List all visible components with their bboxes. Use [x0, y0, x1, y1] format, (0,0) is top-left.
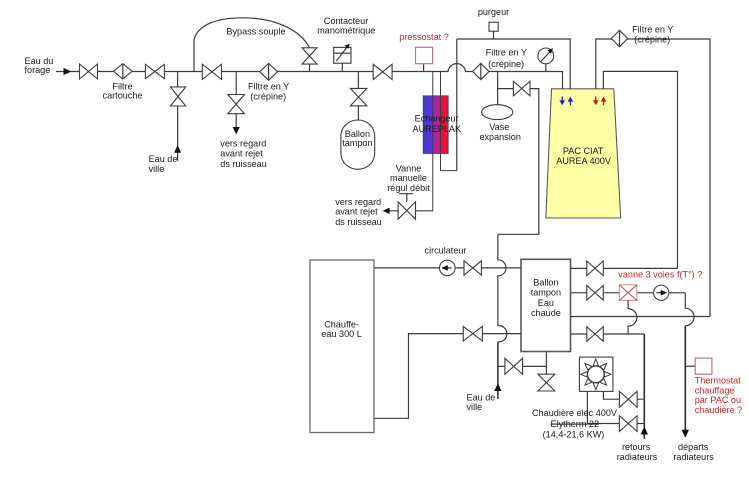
- svg-text:manométrique: manométrique: [317, 26, 375, 36]
- pressure switch Contacteur manometrique: [334, 44, 351, 64]
- svg-text:cartouche: cartouche: [103, 91, 143, 101]
- wire eau de ville branch to ballon drain: [498, 365, 547, 367]
- wire vase expansion drop: [497, 72, 499, 105]
- wire ballon EC drain drop: [545, 352, 547, 375]
- wire drain drop to regard (first): [235, 72, 237, 129]
- wire gauge stem: [545, 64, 547, 72]
- svg-text:Echangeur: Echangeur: [415, 114, 459, 124]
- svg-text:vers regard: vers regard: [220, 139, 266, 149]
- valve V3 on main line: [202, 64, 221, 79]
- svg-text:Chauffe-: Chauffe-: [324, 319, 359, 329]
- svg-text:expansion: expansion: [479, 132, 520, 142]
- wire bypass right drop below valve: [309, 64, 311, 71]
- arrow PAC blue up: [568, 97, 574, 106]
- valve V1 on main line: [80, 64, 98, 79]
- valve on eau de ville branch: [505, 358, 523, 374]
- valve on ballon line 4: [587, 327, 604, 342]
- wire ballon EC line 3 to filtre riser: [571, 316, 711, 318]
- svg-text:(crépine): (crépine): [488, 59, 524, 69]
- svg-text:Eau de: Eau de: [149, 154, 178, 164]
- svg-text:chaudière ?: chaudière ?: [695, 405, 743, 415]
- svg-text:AUREA 400V: AUREA 400V: [556, 156, 612, 166]
- wire bypass souple arc: [194, 18, 310, 48]
- wire chaudiere stem 1 and retour line: [587, 391, 644, 423]
- wire pressostat stem: [423, 64, 425, 72]
- svg-text:Vanne: Vanne: [396, 164, 422, 174]
- svg-text:Contacteur: Contacteur: [324, 16, 368, 26]
- valve on chauffe-eau top line: [464, 261, 481, 275]
- arrow eau de ville up (right): [494, 383, 501, 391]
- svg-text:Ballon: Ballon: [533, 278, 558, 288]
- svg-text:Filtre en Y: Filtre en Y: [632, 24, 673, 34]
- exchanger Echangeur AUREPLAK block: [423, 96, 448, 154]
- valve hourglass on eau-de-ville riser: [170, 87, 185, 106]
- boiler chaudiere elec sun box: [579, 357, 613, 391]
- wire ballon EC line 4 retours: [571, 333, 645, 335]
- svg-text:manuelle: manuelle: [390, 173, 427, 183]
- wire ballon tampon stem: [357, 72, 359, 121]
- svg-text:vers regard: vers regard: [335, 197, 381, 207]
- valve on ballon line 1: [587, 261, 604, 276]
- wire exchanger left pipe: [432, 72, 434, 212]
- valve on refill line y=88.6: [513, 81, 530, 96]
- svg-text:ville: ville: [149, 164, 165, 174]
- wire thermostat connector: [685, 365, 695, 367]
- wire PAC top right lines: [596, 39, 710, 317]
- svg-text:(crépine): (crépine): [634, 35, 670, 45]
- svg-text:ds ruisseau: ds ruisseau: [220, 159, 267, 169]
- svg-text:PAC CIAT: PAC CIAT: [563, 146, 604, 156]
- pump circulateur: [440, 260, 456, 276]
- wire bypass left riser: [193, 40, 195, 72]
- valve bypass hourglass: [302, 48, 317, 64]
- svg-text:par PAC ou: par PAC ou: [695, 395, 741, 405]
- svg-text:purgeur: purgeur: [478, 7, 509, 17]
- wire retours riser: [643, 334, 645, 439]
- valve on chaudiere line y=423.5: [619, 416, 637, 432]
- wire red valve drop with hop: [628, 300, 637, 334]
- arrow retours up: [641, 426, 648, 434]
- purgeur square: [489, 22, 498, 31]
- arrow eau de ville up: [174, 145, 181, 153]
- wire exchanger right pipe: [441, 72, 457, 171]
- valve hourglass above ballon tampon: [350, 88, 366, 105]
- svg-text:AUREPLAK: AUREPLAK: [413, 124, 462, 134]
- svg-text:avant rejet: avant rejet: [220, 149, 263, 159]
- filter Filtre en Y (crepine) middle: [473, 63, 489, 79]
- arrow down vers regard: [233, 127, 240, 135]
- wire purgeur top line to PAC inlet: [457, 39, 570, 89]
- svg-text:vanne 3 voies f(T°) ?: vanne 3 voies f(T°) ?: [618, 270, 702, 280]
- arrow departs down: [682, 430, 689, 438]
- svg-text:Filtre en Y: Filtre en Y: [248, 82, 289, 92]
- wire chaudiere stem 2 and line y=399: [603, 391, 644, 399]
- svg-text:forage: forage: [25, 65, 51, 75]
- svg-text:avant rejet: avant rejet: [335, 207, 378, 217]
- arrow PAC red down: [593, 97, 599, 106]
- wire chauffe-eau top line to ballon: [374, 267, 521, 269]
- svg-text:Eau: Eau: [538, 298, 554, 308]
- arrow PAC blue down: [559, 97, 565, 106]
- svg-text:radiateurs: radiateurs: [617, 452, 658, 462]
- wire refill riser with two hops: [498, 234, 507, 342]
- wire purge riser (crosses main line under hop): [456, 39, 458, 171]
- svg-text:retours: retours: [622, 442, 651, 452]
- wire eau de ville riser left: [177, 72, 179, 161]
- svg-text:circulateur: circulateur: [425, 246, 467, 256]
- vessel Vase expansion: [482, 105, 513, 120]
- svg-text:régul débit: régul débit: [387, 183, 430, 193]
- wire ballon EC line 1 to PAC return riser: [571, 267, 678, 269]
- tank Ballon tampon Eau chaude: [521, 259, 571, 351]
- wire ballon EC line 2 radiators flow: [571, 292, 686, 294]
- wire branch to refill line y88.6: [498, 89, 539, 235]
- svg-text:ville: ville: [467, 402, 483, 412]
- svg-text:(14,4-21,6 KW): (14,4-21,6 KW): [543, 429, 605, 439]
- arrow PAC red up: [601, 97, 607, 106]
- pressostat red square: [416, 47, 433, 63]
- valve V4 on main line: [373, 64, 392, 79]
- wire purgeur stem: [493, 31, 495, 39]
- svg-text:Elytherm 22: Elytherm 22: [551, 419, 600, 429]
- thermostat red square: [695, 358, 712, 374]
- wire contacteur stem: [341, 63, 343, 71]
- valve on chaudiere line y=399: [619, 391, 637, 407]
- svg-text:Vase: Vase: [489, 122, 509, 132]
- svg-text:chauffage: chauffage: [695, 385, 735, 395]
- filter Filtre en Y (crepine) left: [260, 63, 278, 80]
- svg-text:tampon: tampon: [342, 138, 372, 148]
- valve on ballon line 2: [587, 286, 604, 301]
- filter Filtre en Y (crepine) right top: [611, 30, 627, 46]
- svg-text:chaude: chaude: [531, 308, 561, 318]
- filter Filtre cartouche: [114, 64, 133, 79]
- svg-text:(crépine): (crépine): [250, 92, 286, 102]
- wire main line from forage to PAC with hop over purge drop: [56, 64, 563, 89]
- svg-text:départs: départs: [678, 442, 709, 452]
- svg-text:radiateurs: radiateurs: [673, 452, 714, 462]
- svg-text:eau 300 L: eau 300 L: [321, 329, 361, 339]
- svg-text:Thermostat: Thermostat: [695, 376, 741, 386]
- gauge manometer circle: [538, 48, 554, 64]
- svg-text:Eau de: Eau de: [467, 393, 496, 403]
- svg-text:pressostat ?: pressostat ?: [399, 32, 449, 42]
- svg-text:Filtre en Y: Filtre en Y: [486, 47, 527, 57]
- valve hourglass drain under ballon EC: [538, 374, 555, 391]
- arrow inlet eau du forage: [64, 68, 72, 75]
- valve vanne 3 voies red: [619, 285, 636, 301]
- wire departs radiateurs drop with hop: [685, 293, 694, 326]
- manual valve Vanne manuelle regul debit: [383, 194, 433, 220]
- svg-text:Chaudière elec 400V: Chaudière elec 400V: [532, 408, 618, 418]
- valve on chauffe-eau bottom line: [463, 326, 482, 341]
- wire PAC hot out to ballon: [603, 71, 677, 268]
- svg-text:Bypass souple: Bypass souple: [226, 26, 285, 36]
- svg-text:tampon: tampon: [531, 288, 561, 298]
- svg-text:ds ruisseau: ds ruisseau: [335, 217, 382, 227]
- wire chauffe-eau bottom line to ballon: [374, 334, 521, 419]
- pump circulator radiators: [654, 285, 669, 300]
- heat pump PAC CIAT AUREA 400V: [546, 89, 621, 218]
- valve V2 on main line: [145, 64, 164, 78]
- tank Chauffe-eau 300 L: [310, 260, 374, 433]
- valve hourglass on regard drop: [228, 95, 245, 114]
- vessel Ballon tampon capsule: [341, 120, 375, 169]
